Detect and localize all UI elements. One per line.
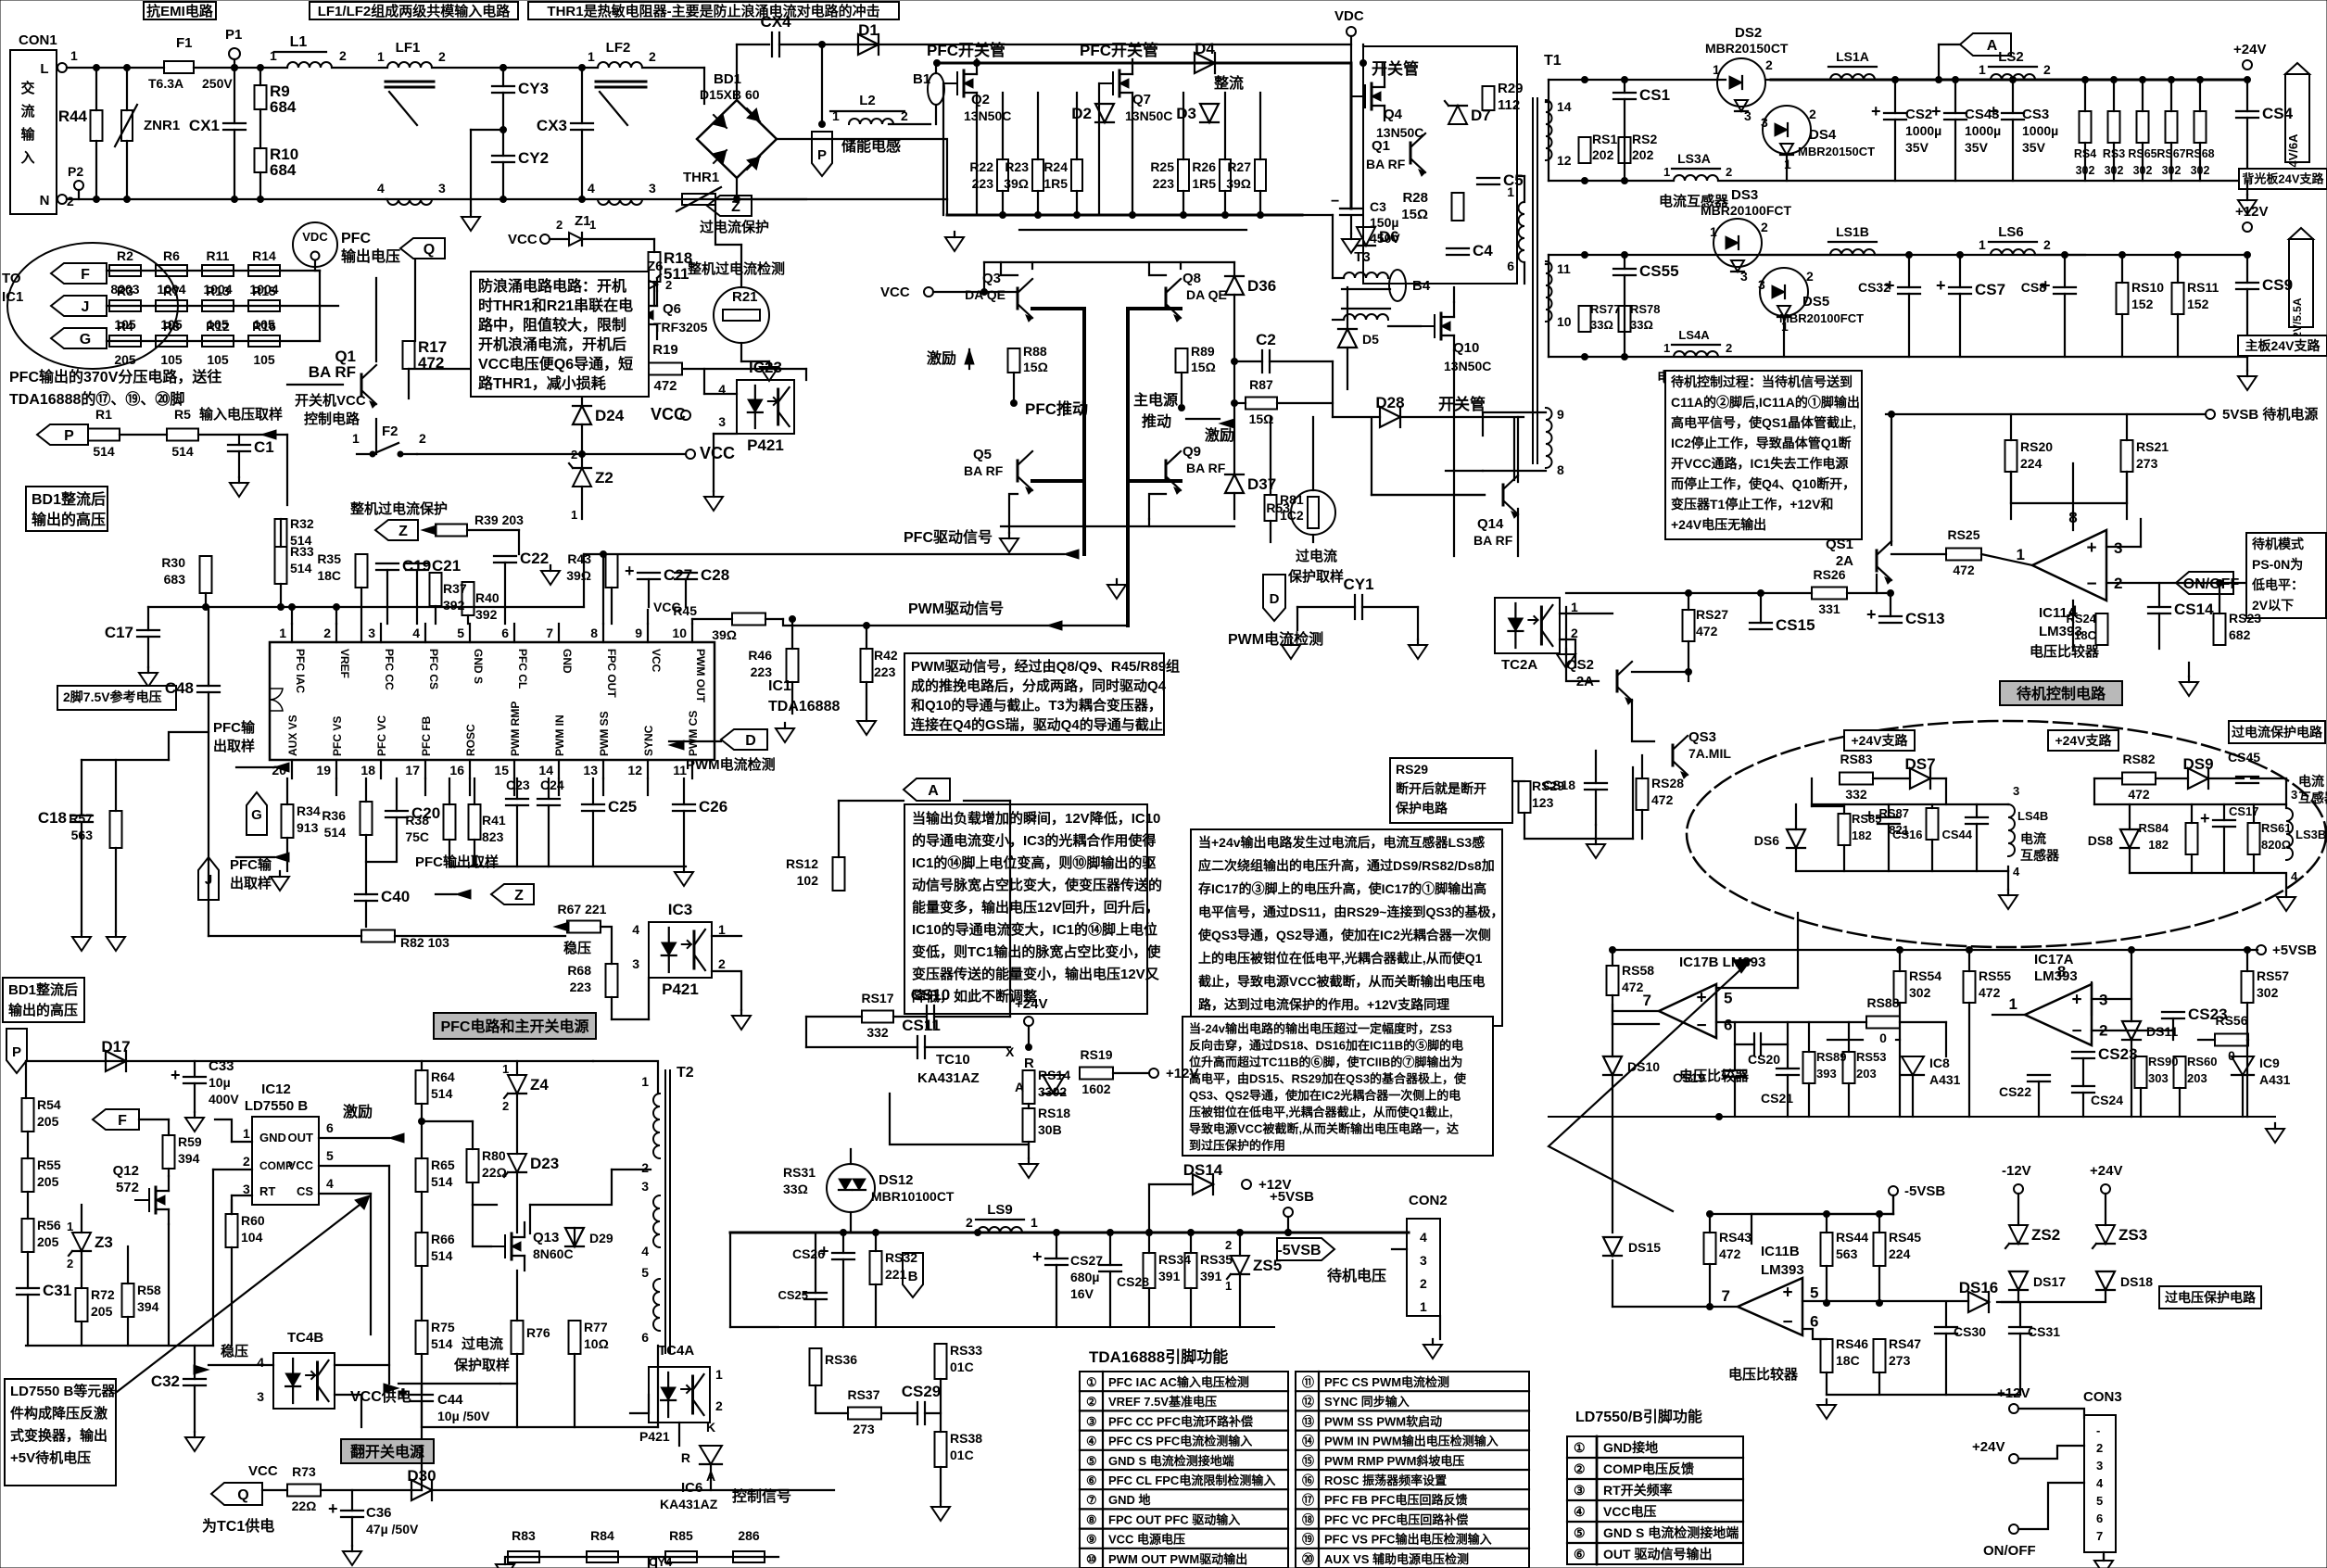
svg-text:RS43: RS43 — [1719, 1230, 1752, 1245]
transformer T2 core — [665, 1065, 694, 1353]
wire — [740, 245, 742, 287]
z4p1 — [502, 1062, 509, 1076]
wire — [449, 840, 450, 866]
wire — [208, 692, 209, 936]
lab 控制信号 — [732, 1487, 791, 1505]
wire — [502, 162, 504, 199]
ic3p2 — [718, 956, 726, 971]
wire — [583, 554, 585, 607]
svg-text:R38: R38 — [405, 813, 429, 828]
ground — [2238, 195, 2257, 214]
qs2b — [1576, 674, 1594, 689]
svg-text:高电平信号，使QS1晶体管截止,: 高电平信号，使QS1晶体管截止, — [1671, 415, 1856, 430]
wire — [1524, 262, 1525, 284]
svg-text:R32: R32 — [290, 516, 314, 531]
capacitor CS43 — [1931, 102, 1967, 120]
resistor R34 — [282, 804, 294, 838]
RS65val — [2133, 164, 2153, 177]
svg-text:F: F — [118, 1113, 127, 1129]
wire — [691, 619, 693, 624]
capacitor CS1 — [1613, 86, 1670, 104]
wire — [875, 1233, 877, 1251]
r89b — [1191, 360, 1216, 374]
wire — [1826, 1214, 1827, 1233]
svg-text:C36: C36 — [366, 1505, 392, 1521]
wire — [2064, 294, 2066, 357]
svg-text:7: 7 — [1722, 1287, 1730, 1305]
svg-text:182: 182 — [2148, 838, 2169, 852]
q10a — [1453, 340, 1479, 356]
resistor RS56 — [2215, 1034, 2248, 1046]
cs43c — [1965, 140, 1989, 155]
junction — [1622, 178, 1628, 184]
ic11a2 — [2039, 624, 2082, 639]
rs58a — [1622, 963, 1654, 978]
svg-text:823: 823 — [482, 829, 504, 844]
wire — [548, 805, 550, 866]
ground — [1423, 1339, 1442, 1359]
svg-text:B1: B1 — [913, 71, 930, 87]
cs27a — [1070, 1253, 1103, 1268]
wire — [712, 935, 741, 937]
c33b — [209, 1075, 231, 1090]
wire — [107, 305, 320, 307]
svg-text:Z3: Z3 — [95, 1233, 113, 1251]
svg-text:472: 472 — [1953, 563, 1975, 577]
rs57a — [2257, 968, 2289, 983]
node ON/OFF — [2176, 572, 2239, 594]
svg-text:392: 392 — [475, 607, 498, 622]
svg-text:CS8: CS8 — [2021, 280, 2046, 295]
wire — [504, 563, 506, 624]
svg-text:3: 3 — [1744, 108, 1752, 123]
svg-text:OUT: OUT — [288, 1131, 314, 1144]
svg-text:1: 1 — [1713, 62, 1720, 77]
resistor RS27 — [1683, 610, 1695, 641]
ls4bl — [2017, 809, 2048, 823]
wire — [1612, 1010, 1659, 1012]
lab 过电流2 — [462, 1335, 503, 1352]
svg-text:2: 2 — [556, 218, 563, 232]
svg-text:3302: 3302 — [1038, 1084, 1067, 1099]
IC1 pin 13 — [583, 711, 611, 778]
rs27a — [1696, 607, 1728, 622]
wire — [1350, 36, 1352, 63]
box 背光板24V支路 — [2239, 169, 2327, 189]
svg-text:电压比较器: 电压比较器 — [2030, 643, 2100, 660]
ic17b lab — [1679, 955, 1765, 970]
tc2a p2 — [1571, 626, 1578, 640]
wire — [1056, 1233, 1057, 1258]
svg-text:RS33: RS33 — [950, 1343, 982, 1358]
svg-text:2: 2 — [1806, 269, 1814, 284]
svg-text:18: 18 — [360, 763, 375, 778]
node terminal — [2014, 1184, 2023, 1194]
wire — [1812, 805, 1844, 807]
wire — [1912, 1075, 1914, 1117]
ground — [2238, 371, 2257, 390]
svg-text:T1: T1 — [1544, 53, 1562, 69]
wire — [1028, 1142, 1030, 1158]
svg-text:2: 2 — [323, 626, 331, 640]
junction — [1146, 1230, 1153, 1236]
svg-text:3: 3 — [1740, 269, 1748, 284]
q2a — [971, 92, 990, 107]
junction — [1232, 359, 1238, 365]
svg-text:VREF: VREF — [338, 649, 351, 678]
rs19b — [1081, 1081, 1110, 1096]
zener Z4 — [504, 1075, 549, 1098]
svg-text:R11: R11 — [207, 248, 230, 263]
rs77b — [1590, 318, 1613, 332]
wire — [2126, 472, 2128, 503]
svg-text:393: 393 — [1816, 1067, 1837, 1081]
q10b — [1444, 359, 1491, 373]
wire — [2106, 546, 2141, 548]
svg-text:1: 1 — [2017, 546, 2025, 563]
node terminal — [1149, 1069, 1158, 1078]
svg-text:D17: D17 — [101, 1038, 130, 1056]
svg-text:1: 1 — [718, 922, 726, 937]
wire — [231, 1247, 233, 1346]
junction — [1622, 252, 1628, 259]
resistor R14 — [248, 248, 280, 297]
svg-text:P: P — [64, 428, 74, 444]
label 开关管 main — [1372, 59, 1419, 78]
wire — [842, 1259, 844, 1327]
junction — [1285, 1230, 1292, 1236]
wire — [1388, 325, 1421, 327]
resistor RS55 — [1964, 971, 1976, 1003]
rs61b — [2261, 838, 2291, 852]
wire — [602, 554, 604, 624]
wire — [95, 68, 97, 110]
r43b — [566, 568, 591, 583]
wire — [205, 593, 207, 607]
diode D4 — [1195, 40, 1215, 73]
svg-text:CX3: CX3 — [537, 117, 567, 134]
svg-text:394: 394 — [137, 1299, 159, 1314]
svg-text:的导通电流变小，IC3的光耦合作用使得: 的导通电流变小，IC3的光耦合作用使得 — [912, 832, 1156, 849]
wire — [1019, 229, 1246, 231]
svg-text:LD7550 B等元器: LD7550 B等元器 — [10, 1383, 116, 1399]
svg-text:Q13: Q13 — [533, 1230, 559, 1246]
inductor LS4B — [2008, 804, 2015, 856]
junction — [1707, 1211, 1714, 1218]
junction — [2197, 77, 2204, 83]
node P2 — [68, 164, 83, 190]
wire — [2072, 463, 2074, 530]
svg-text:CON3: CON3 — [2083, 1389, 2122, 1405]
ls1blab — [1836, 224, 1869, 239]
wire — [1891, 553, 1946, 555]
wire — [370, 1194, 372, 1334]
wire — [2018, 1483, 2084, 1529]
wire — [940, 1379, 942, 1432]
svg-text:2: 2 — [665, 278, 672, 292]
wire — [2113, 80, 2115, 111]
wire — [1234, 360, 1262, 362]
cs25l — [778, 1288, 808, 1302]
inductor T2 p — [653, 1094, 660, 1158]
svg-text:GND: GND — [561, 649, 574, 674]
svg-text:截止，导致电源VCC被截断，从而关断输出电压电: 截止，导致电源VCC被截断，从而关断输出电压电 — [1198, 974, 1486, 989]
svg-text:位升高而超过TC11B的⑥脚，使TCIIB的⑦脚输出为: 位升高而超过TC11B的⑥脚，使TCIIB的⑦脚输出为 — [1189, 1055, 1462, 1069]
wire — [1795, 848, 1797, 871]
wire — [231, 1200, 233, 1214]
svg-text:⑤: ⑤ — [1086, 1454, 1097, 1468]
junction — [334, 604, 340, 611]
svg-text:④: ④ — [1086, 1435, 1097, 1448]
svg-text:CS2: CS2 — [1905, 107, 1932, 122]
svg-text:RS17: RS17 — [861, 991, 893, 1005]
lab 保护取样2 — [453, 1357, 510, 1373]
svg-text:3: 3 — [649, 181, 656, 196]
wire — [1417, 607, 1419, 639]
rs29b — [1532, 795, 1554, 810]
svg-text:2: 2 — [67, 1257, 73, 1271]
capacitor C3 — [1340, 209, 1362, 215]
svg-text:A: A — [928, 783, 939, 799]
rs87b — [1889, 823, 1909, 837]
wire — [741, 360, 769, 362]
p12vb — [1166, 1066, 1198, 1081]
wire — [1688, 593, 1689, 610]
ls3b4 — [2291, 869, 2298, 883]
svg-text:当+24v输出电路发生过电流后，电流互感器LS3感: 当+24v输出电路发生过电流后，电流互感器LS3感 — [1198, 835, 1485, 850]
connector CON3 — [2083, 1389, 2122, 1552]
svg-text:-5VSB: -5VSB — [1904, 1183, 1945, 1199]
wire — [581, 487, 583, 519]
resistor RS77 — [1579, 306, 1591, 332]
wire — [421, 1446, 423, 1490]
transistor Q1 — [309, 348, 376, 408]
box 过电流保护电路 — [2229, 721, 2325, 743]
wire — [1765, 79, 1830, 81]
wire — [1752, 1213, 1893, 1215]
wire — [516, 1061, 518, 1075]
label 激励2 — [1205, 426, 1234, 444]
svg-text:1: 1 — [589, 218, 596, 232]
cs28l — [1117, 1274, 1149, 1289]
r59a — [178, 1134, 202, 1149]
rs36a — [825, 1352, 857, 1367]
ls4a1 — [1663, 341, 1670, 355]
junction — [2082, 77, 2089, 83]
wire — [937, 62, 1351, 65]
rs19a — [1080, 1047, 1112, 1062]
svg-text:+24V电压无输出: +24V电压无输出 — [1671, 517, 1766, 532]
resistor R23 — [1004, 159, 1043, 191]
wire — [234, 130, 235, 199]
r35a — [317, 551, 341, 566]
svg-text:PFC CS: PFC CS — [427, 649, 440, 689]
node terminal — [540, 234, 550, 244]
svg-text:DS5: DS5 — [1802, 294, 1829, 310]
C3 minus — [1331, 194, 1339, 209]
svg-text:C22: C22 — [520, 550, 549, 567]
p12vc — [1258, 1177, 1291, 1193]
wire — [881, 1412, 917, 1414]
svg-text:C48: C48 — [165, 679, 194, 697]
capacitor C25 — [582, 798, 637, 816]
svg-text:动信号脉宽占空比变大，使变压器传送的: 动信号脉宽占空比变大，使变压器传送的 — [912, 877, 1162, 893]
wire — [1560, 639, 1575, 667]
svg-text:R58: R58 — [137, 1283, 161, 1297]
resistor RS21 — [2121, 440, 2133, 472]
svg-text:104: 104 — [241, 1230, 263, 1245]
wire — [602, 778, 604, 795]
diode DS15 — [1603, 1237, 1622, 1256]
svg-text:CS30: CS30 — [1954, 1324, 1986, 1339]
wire — [657, 1346, 659, 1427]
svg-text:PFC VC: PFC VC — [375, 715, 388, 756]
svg-text:CS26: CS26 — [792, 1246, 825, 1261]
z2 pin2 — [571, 448, 577, 462]
arrow pfcdrv — [1064, 550, 1079, 559]
rs17b — [866, 1025, 889, 1040]
wire — [1624, 99, 1625, 181]
svg-text:压被钳位在低电平,光耦合器截止，从而使Q1截止,: 压被钳位在低电平,光耦合器截止，从而使Q1截止, — [1189, 1105, 1453, 1119]
q12b — [116, 1180, 139, 1195]
RS68val — [2191, 164, 2210, 177]
note 待机控制过程 — [1665, 371, 1862, 539]
svg-text:TRF3205: TRF3205 — [653, 320, 708, 335]
svg-text:IC17A: IC17A — [2034, 952, 2074, 967]
svg-text:D29: D29 — [589, 1231, 613, 1246]
svg-text:16: 16 — [449, 763, 464, 778]
node terminal — [2206, 410, 2215, 419]
resistor R77 — [569, 1321, 581, 1354]
svg-text:Z: Z — [731, 199, 740, 215]
node terminal — [1024, 1017, 1033, 1026]
svg-text:RS3: RS3 — [2103, 147, 2125, 160]
rs88a — [1866, 995, 1899, 1010]
capacitor CS24 — [2072, 1086, 2094, 1093]
wire — [1826, 1266, 1827, 1303]
svg-text:RS60: RS60 — [2187, 1055, 2218, 1069]
svg-text:TO: TO — [2, 271, 21, 286]
capacitor C31 — [17, 1282, 71, 1299]
tc10 lab2 — [917, 1070, 980, 1086]
svg-text:RS65: RS65 — [2128, 147, 2156, 160]
wire — [1001, 525, 1234, 527]
capacitor CX3 — [537, 117, 593, 134]
resistor R37 — [430, 573, 442, 606]
zener Z2 — [569, 463, 613, 487]
svg-text:互感器: 互感器 — [2298, 790, 2327, 805]
svg-text:−: − — [1331, 194, 1339, 209]
wire — [169, 732, 209, 760]
wire — [259, 68, 261, 85]
qs3a — [1688, 729, 1716, 745]
svg-text:能量变多，输出电压12V回升，回升后，: 能量变多，输出电压12V回升，回升后， — [912, 899, 1159, 916]
label 主电源1 — [1133, 391, 1178, 409]
wire — [115, 760, 117, 811]
svg-text:激励: 激励 — [343, 1103, 373, 1120]
C3c — [1370, 231, 1400, 246]
IC1 notch — [270, 689, 283, 711]
arrow pwmdet — [669, 740, 721, 750]
wire — [736, 178, 738, 199]
wire — [730, 1326, 778, 1328]
svg-text:PFC驱动信号: PFC驱动信号 — [904, 528, 993, 546]
cs2c — [1905, 140, 1929, 155]
lab PFC驱动信号 — [904, 528, 993, 546]
ds17l — [2033, 1274, 2066, 1289]
wire — [422, 1120, 473, 1122]
wire — [964, 800, 1010, 802]
svg-text:105: 105 — [207, 352, 229, 367]
wire — [147, 607, 149, 630]
svg-text:221: 221 — [885, 1267, 907, 1282]
resistor R60 — [226, 1214, 238, 1247]
svg-text:R88: R88 — [1023, 344, 1047, 359]
wire — [1013, 373, 1015, 403]
resistor R13 — [202, 284, 234, 332]
svg-text:和Q10的导通与截止。T3为耦合变压器，: 和Q10的导通与截止。T3为耦合变压器， — [911, 697, 1162, 714]
junction — [94, 196, 100, 203]
rs27b — [1696, 624, 1718, 639]
q13b — [533, 1246, 574, 1261]
svg-text:D24: D24 — [595, 407, 625, 424]
d29l — [589, 1231, 613, 1246]
wire — [581, 369, 583, 406]
svg-text:R46: R46 — [748, 648, 772, 663]
svg-text:R84: R84 — [590, 1528, 614, 1543]
IC1 pin 11 — [673, 711, 700, 778]
wire — [1875, 254, 1909, 256]
lab 激励1 — [927, 349, 956, 367]
svg-text:低电平：: 低电平： — [2251, 577, 2304, 592]
resistor RS24 — [2096, 613, 2108, 645]
rs85a — [1852, 812, 1882, 826]
wire — [1787, 1022, 1789, 1069]
svg-text:C11A的②脚后,IC11A的①脚输出: C11A的②脚后,IC11A的①脚输出 — [1671, 395, 1860, 410]
diode D30 — [407, 1467, 436, 1500]
svg-text:保护电路: 保护电路 — [1395, 801, 1448, 816]
ic23 pin4 — [718, 382, 726, 397]
wire — [286, 778, 288, 804]
ic3p3 — [632, 956, 639, 971]
svg-text:出取样: 出取样 — [213, 738, 255, 754]
svg-text:514: 514 — [93, 444, 115, 459]
wire — [765, 618, 783, 620]
node terminal — [2243, 60, 2252, 70]
svg-text:1: 1 — [502, 1062, 509, 1076]
svg-text:R83: R83 — [512, 1528, 536, 1543]
svg-text:−: − — [1782, 1313, 1792, 1333]
L2 bar — [830, 110, 904, 112]
junction — [1258, 212, 1264, 219]
resistor RS26 — [1812, 588, 1847, 600]
svg-text:C1: C1 — [254, 438, 274, 456]
svg-text:过电压保护电路: 过电压保护电路 — [2165, 1290, 2257, 1305]
wire — [1190, 1233, 1192, 1253]
resistor RS44 — [1821, 1233, 1833, 1266]
svg-text:RS25: RS25 — [1947, 527, 1979, 542]
wire — [1886, 413, 2206, 415]
label PFC输出电压 — [341, 231, 371, 247]
capacitor CS23 — [2162, 1005, 2228, 1023]
t1p1 — [1507, 184, 1514, 199]
svg-text:L1: L1 — [290, 34, 308, 50]
capacitor CS28 — [1099, 1265, 1121, 1271]
svg-text:RS21: RS21 — [2136, 439, 2169, 454]
svg-text:DS8: DS8 — [2088, 833, 2113, 848]
wire — [505, 1556, 778, 1558]
wire — [139, 1119, 169, 1120]
